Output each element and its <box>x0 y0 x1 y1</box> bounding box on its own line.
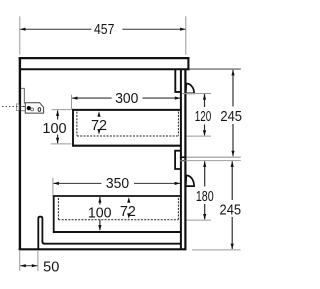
upper door damper quarter-pie <box>186 83 194 93</box>
svg-text:72: 72 <box>91 118 107 134</box>
hinge axis dotted line <box>2 106 25 108</box>
dim 100 upper stem bottom <box>57 135 59 144</box>
upper drawer top edge <box>72 109 181 111</box>
dim 100 upper down arrow <box>56 138 59 144</box>
dim 350 right arrow <box>175 182 181 185</box>
dim 50 left extension line <box>19 251 21 271</box>
dim 300 right arrow <box>175 97 181 100</box>
svg-text:245: 245 <box>220 202 242 218</box>
left side panel <box>19 57 21 250</box>
upper drawer dotted inner box left <box>76 112 78 136</box>
dim 100 upper bottom tick <box>51 143 71 145</box>
dim 72 lower up arrow <box>127 197 130 203</box>
upper drawer left edge <box>72 109 74 147</box>
dim 350 line right segment <box>134 182 180 184</box>
svg-text:245: 245 <box>220 109 242 125</box>
lower drawer dotted inner box right <box>177 198 179 220</box>
dim 50 left arrow <box>20 264 26 267</box>
dim 100 upper stem top <box>57 110 59 119</box>
dim 72 lower down arrow <box>127 213 130 219</box>
top panel top edge <box>19 57 190 59</box>
dim 457 right extension line <box>185 16 187 55</box>
dim 180 stem bottom <box>204 204 206 219</box>
dim 120 stem bottom <box>204 125 206 136</box>
hinge plate marks on panel <box>21 105 25 107</box>
hinge small arc next to dot <box>31 108 34 111</box>
svg-text:180: 180 <box>196 189 214 205</box>
dim 180 down arrow <box>203 214 206 220</box>
dim 245 upper top tick <box>189 68 240 70</box>
drawer seam lower line <box>180 160 187 162</box>
dim 457 line left segment <box>20 28 91 30</box>
lower drawer dotted inner box left <box>57 198 59 220</box>
dim 457 line right segment <box>122 28 185 30</box>
dim 300 line left segment <box>72 97 111 99</box>
dim 350 left extension line <box>52 178 54 196</box>
dim 245 lower stem top <box>231 161 233 200</box>
svg-text:100: 100 <box>42 121 66 137</box>
top right bracket clip <box>175 70 181 92</box>
hinge screw circle <box>38 108 41 112</box>
top panel right edge <box>187 57 189 70</box>
lower drawer dotted inner box bottom <box>58 219 178 221</box>
hinge arm thin bracket <box>21 88 24 103</box>
bottom panel inner line <box>42 241 181 244</box>
dim 245 upper stem top <box>232 70 234 107</box>
hinge pivot filled dot <box>27 106 31 110</box>
lower drawer top edge <box>53 195 181 197</box>
svg-text:100: 100 <box>88 205 112 221</box>
dim 300 left arrow <box>72 97 78 100</box>
svg-text:72: 72 <box>120 204 136 220</box>
hinge wall plate left of panel <box>16 104 19 111</box>
dim 457 right arrow <box>180 28 186 31</box>
dim 100 upper top tick <box>52 109 72 111</box>
dim 245 upper seam tick <box>187 156 241 158</box>
drawer seam upper line <box>180 156 187 158</box>
dim 120 up arrow <box>203 94 206 100</box>
dim 50 line <box>20 265 37 267</box>
dim 120 down arrow <box>203 130 206 136</box>
dim 50 right extension line <box>37 251 39 271</box>
dim 180 up arrow <box>203 161 206 167</box>
dim 245 lower down arrow <box>231 244 234 250</box>
dim 180 seam tick <box>187 160 241 162</box>
svg-text:350: 350 <box>106 176 129 192</box>
dim 300 line right segment <box>143 97 181 99</box>
dim 457 left extension line <box>19 16 21 54</box>
upper drawer dotted inner box bottom <box>77 135 178 137</box>
dim 72 upper down arrow <box>97 129 100 135</box>
dim 245 upper up arrow <box>231 70 234 76</box>
dim 72 upper up arrow <box>97 111 100 117</box>
upper drawer dotted inner box right <box>177 112 179 136</box>
dim 120 top tick <box>182 93 211 95</box>
dim 245 upper down arrow <box>231 151 234 157</box>
dim 245 lower up arrow <box>231 161 234 167</box>
shelf divider / upper drawer bottom <box>72 145 181 147</box>
front outer vertical line <box>184 70 186 250</box>
rear foot / mounting rail <box>38 217 42 250</box>
dim 120 bottom tick <box>186 135 211 137</box>
lower drawer left edge <box>53 195 55 233</box>
dim 180 stem top <box>204 161 206 186</box>
dim 457 left arrow <box>20 28 26 31</box>
dim 100 upper up arrow <box>56 110 59 116</box>
dim 350 left arrow <box>53 182 59 185</box>
svg-text:300: 300 <box>115 91 138 107</box>
dim 300 left extension line <box>71 95 73 110</box>
svg-text:120: 120 <box>195 109 212 125</box>
svg-text:457: 457 <box>94 22 114 38</box>
dim 100 lower up arrow <box>98 197 101 203</box>
dim 245 lower stem bottom <box>231 217 233 249</box>
lower drawer bottom edge <box>53 231 181 233</box>
dim 120 stem top <box>204 94 206 107</box>
front inner vertical line <box>180 70 182 250</box>
dim 245 lower bottom tick <box>192 249 241 251</box>
bottom panel outer line <box>19 248 187 250</box>
dim 100 lower stem bottom <box>99 220 101 231</box>
dim 100 lower stem top <box>99 197 101 205</box>
lower door damper quarter-pie <box>186 175 194 186</box>
dim 100 lower down arrow <box>98 225 101 231</box>
dim 350 line left segment <box>54 182 102 184</box>
svg-text:50: 50 <box>43 259 59 275</box>
middle right bracket clip <box>175 151 181 169</box>
dim 50 right arrow <box>32 264 38 267</box>
dim 180 bottom tick <box>187 219 212 221</box>
top panel bottom edge <box>21 68 190 70</box>
dim 245 upper stem bottom <box>232 124 234 156</box>
hinge body <box>25 103 43 113</box>
